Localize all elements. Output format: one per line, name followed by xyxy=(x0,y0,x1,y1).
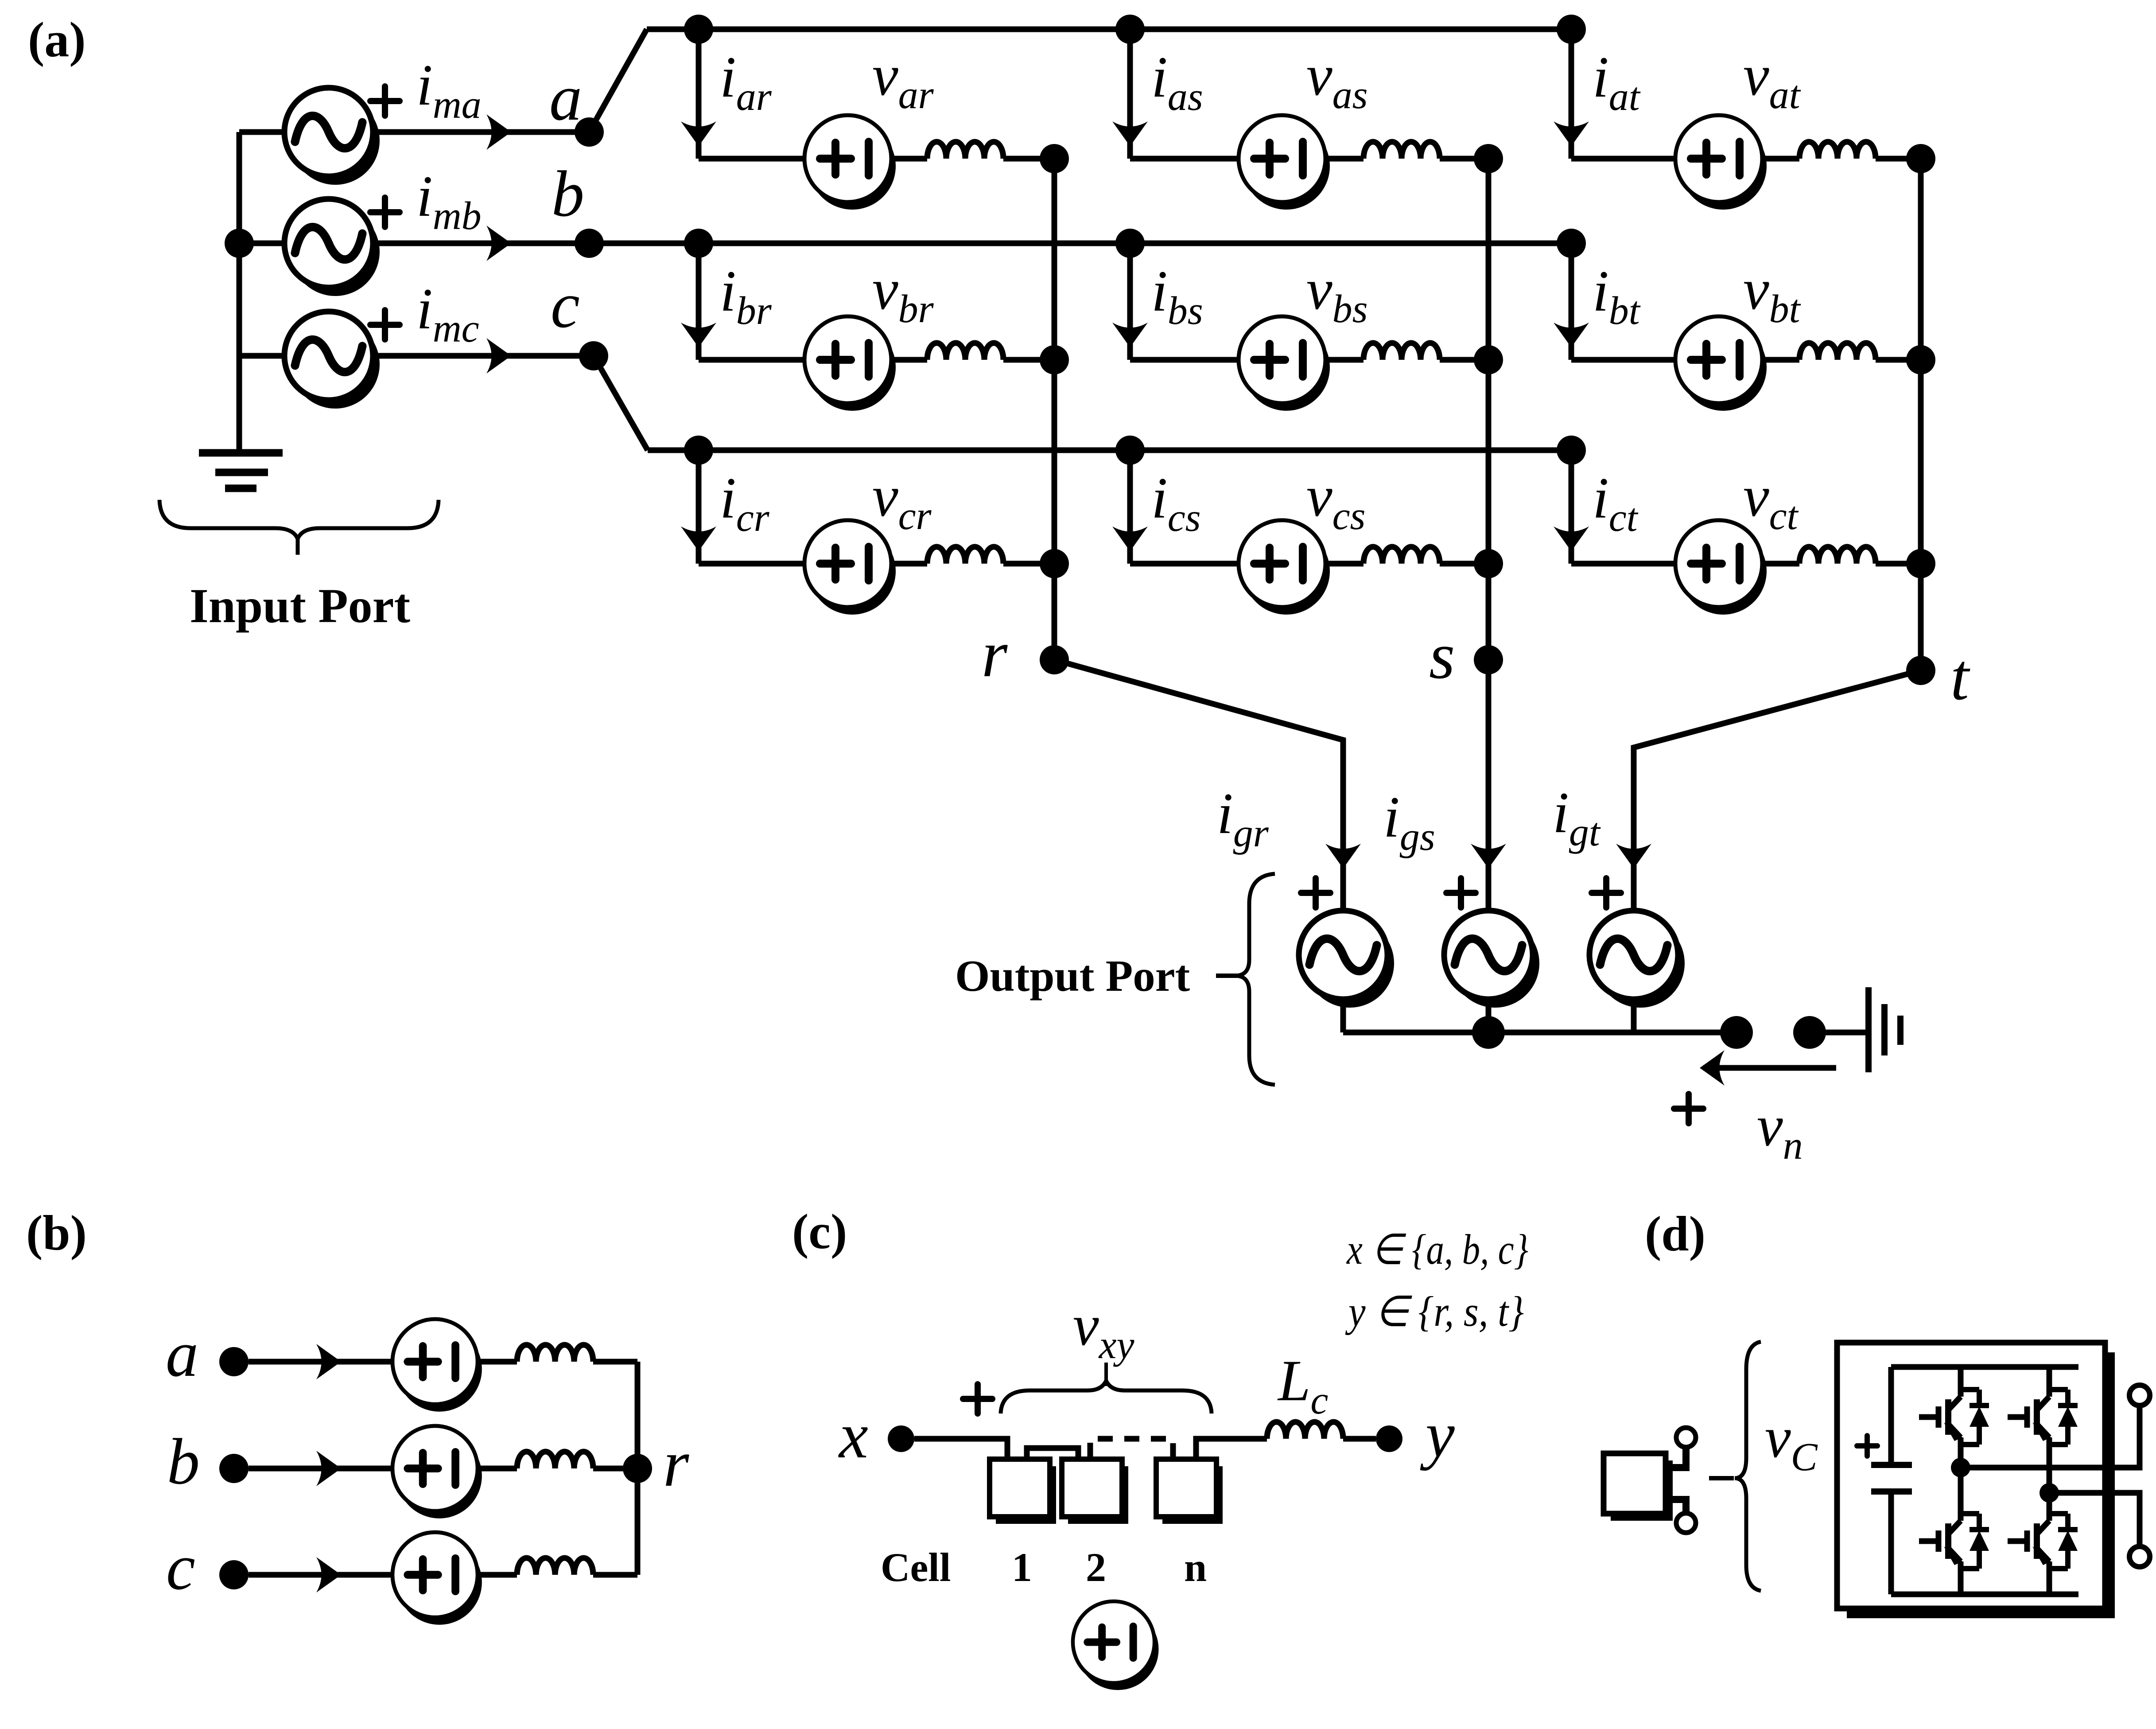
wire d-cell bottom terminal xyxy=(1666,1499,1686,1513)
svg-text:(d): (d) xyxy=(1645,1207,1705,1262)
inductor L_c xyxy=(1267,1422,1343,1439)
wire source to node a xyxy=(372,129,589,135)
node bus a drop t xyxy=(1557,15,1586,44)
ac source output gs xyxy=(1444,911,1539,1008)
node bus b drop r xyxy=(684,229,713,258)
wire inductor cs to bus s xyxy=(1440,561,1488,567)
wire cap bottom stub xyxy=(1888,1491,1894,1594)
wire branch at to source xyxy=(1571,156,1675,162)
wire b-section b to source xyxy=(249,1466,396,1472)
v_xy brace stem xyxy=(1104,1363,1108,1386)
wire inductor ct to bus t xyxy=(1876,561,1921,567)
wire drop i_ar xyxy=(696,29,702,159)
wire bus t vertical xyxy=(1918,159,1924,670)
wire node r to output xyxy=(1054,660,1343,912)
wire dashed cell 2 to cell n xyxy=(1090,1439,1173,1458)
plus polarity source a xyxy=(370,86,400,116)
wire source v_cr to inductor xyxy=(891,561,927,567)
node bus t row b xyxy=(1906,345,1935,374)
svg-text:Output Port: Output Port xyxy=(955,951,1190,1001)
wire left input bus vertical xyxy=(237,132,242,453)
inductor branch ct xyxy=(1799,547,1876,564)
igbt Q2 xyxy=(2008,1387,2078,1447)
wire branch br to source xyxy=(699,357,804,363)
wire cell 1 to cell 2 xyxy=(1027,1448,1078,1459)
wire branch cs to source xyxy=(1130,561,1239,567)
wire diagonal node c to c bus xyxy=(594,356,648,450)
svg-text:c: c xyxy=(551,269,580,342)
inductor b-section b xyxy=(517,1452,593,1468)
arrow current i_ct xyxy=(1554,526,1589,551)
node bus s row b xyxy=(1474,345,1503,374)
wire right leg upper xyxy=(2047,1367,2052,1389)
inductor b-section c xyxy=(517,1558,593,1575)
wire branch ar to source xyxy=(699,156,804,162)
wire diagonal node a to top bus xyxy=(589,29,647,132)
node t xyxy=(1906,656,1935,685)
svg-text:r: r xyxy=(663,1427,689,1500)
voltage source b-section a xyxy=(392,1319,482,1412)
wire inductor bs to bus s xyxy=(1440,357,1488,363)
node b-section a xyxy=(219,1347,249,1376)
node c xyxy=(579,341,608,370)
node bus a drop r xyxy=(684,15,713,44)
wire inductor at to bus t xyxy=(1876,156,1921,162)
overbrace v_xy xyxy=(1001,1381,1212,1414)
wire source v_ct to inductor xyxy=(1762,561,1799,567)
wire source to node b xyxy=(372,241,589,246)
voltage source cell legend xyxy=(1073,1601,1159,1690)
node bus b drop s xyxy=(1115,229,1145,258)
voltage source v_bt xyxy=(1675,316,1767,411)
inductor branch br xyxy=(927,343,1003,360)
wire left bus to source a xyxy=(239,129,286,135)
wire x to cell 1 xyxy=(914,1439,1007,1459)
ac source i_ma xyxy=(284,88,380,185)
wire drop i_bt xyxy=(1569,243,1574,360)
wire left bus to source c xyxy=(239,353,286,359)
node bus t row c xyxy=(1906,549,1935,578)
arrow current i_cs xyxy=(1112,526,1148,551)
wire cell n to inductor xyxy=(1196,1439,1267,1459)
svg-text:x ∈ {a, b, c}: x ∈ {a, b, c} xyxy=(1346,1226,1528,1273)
wire inductor as to bus s xyxy=(1440,156,1488,162)
voltage source v_br xyxy=(804,316,896,411)
arrow b-section c xyxy=(316,1557,341,1593)
wire left bus to source b xyxy=(239,241,286,246)
wire node s to output xyxy=(1486,660,1492,912)
wire inductor L_c to y xyxy=(1343,1436,1376,1442)
wire source v_bs to inductor xyxy=(1325,357,1364,363)
svg-text:(c): (c) xyxy=(792,1204,847,1259)
wire b-section source c to inductor xyxy=(478,1572,517,1578)
node bus c drop t xyxy=(1557,436,1586,465)
wire bridge bottom rail xyxy=(1891,1592,2078,1597)
svg-text:1: 1 xyxy=(1012,1545,1032,1590)
node bus r row c xyxy=(1040,549,1069,578)
inductor branch cs xyxy=(1364,547,1440,564)
wire b-section source a to inductor xyxy=(478,1359,517,1365)
node bus s row a xyxy=(1474,144,1503,173)
wire drop i_at xyxy=(1569,29,1574,159)
node neutral ground terminal xyxy=(1793,1016,1826,1049)
svg-text:a: a xyxy=(166,1318,198,1390)
inductor branch cr xyxy=(927,547,1003,564)
arrow current i_gt xyxy=(1616,844,1651,868)
svg-text:a: a xyxy=(549,62,582,134)
wire left leg lower xyxy=(1958,1569,1964,1594)
arrow current i_as xyxy=(1112,121,1148,146)
arrow b-section a xyxy=(316,1344,341,1379)
ac source output gr xyxy=(1299,911,1394,1008)
cell 2 square xyxy=(1062,1459,1128,1524)
wire d-cell top terminal xyxy=(1666,1447,1686,1468)
wire drop i_br xyxy=(696,243,702,360)
wire left leg upper xyxy=(1958,1367,1964,1389)
wire neutral terminal to ground xyxy=(1810,1030,1866,1036)
node a xyxy=(575,117,604,147)
wire bus phase b xyxy=(589,241,1571,246)
wire right leg lower xyxy=(2047,1569,2052,1594)
plus polarity output gt xyxy=(1592,878,1621,907)
terminal circle d-cell top xyxy=(1676,1428,1696,1447)
voltage source v_cr xyxy=(804,520,896,615)
node bridge left mid xyxy=(1951,1458,1970,1477)
wire source v_cs to inductor xyxy=(1325,561,1364,567)
wire cap top stub xyxy=(1888,1367,1894,1465)
arrow current i_gr xyxy=(1325,844,1361,868)
ac source i_mc xyxy=(284,312,380,409)
wire inductor cr to bus r xyxy=(1003,561,1054,567)
wire drop i_ct xyxy=(1569,450,1574,564)
wire branch cr to source xyxy=(699,561,804,567)
wire branch bt to source xyxy=(1571,357,1675,363)
node bus t row a xyxy=(1906,144,1935,173)
wire bridge output top xyxy=(1961,1406,2140,1468)
wire output gs to neutral bus xyxy=(1486,998,1492,1032)
wire b-section inductor b to bus xyxy=(593,1466,637,1472)
wire bus phase c xyxy=(648,448,1571,453)
input port brace xyxy=(159,500,439,539)
output port label dash xyxy=(1216,974,1240,978)
wire drop i_as xyxy=(1127,29,1133,159)
terminal circle d-cell bottom xyxy=(1676,1513,1696,1533)
wire b-section inductor a to bus xyxy=(593,1359,637,1365)
voltage source v_bs xyxy=(1239,316,1330,411)
arrow current i_cr xyxy=(681,526,716,551)
cell square d-section xyxy=(1604,1453,1673,1521)
d-section dash xyxy=(1709,1476,1734,1480)
wire drop i_bs xyxy=(1127,243,1133,360)
terminal circle bridge top xyxy=(2129,1385,2150,1406)
arrow v_n xyxy=(1700,1050,1725,1086)
wire source v_as to inductor xyxy=(1325,156,1364,162)
wire b-section bus r xyxy=(635,1362,641,1575)
node x xyxy=(888,1425,914,1452)
node bus c drop s xyxy=(1115,436,1145,465)
capacitor plates xyxy=(1871,1465,1912,1491)
inductor branch as xyxy=(1364,142,1440,159)
node b-section c xyxy=(219,1560,249,1589)
arrow current i_bs xyxy=(1112,323,1148,347)
wire bus s vertical xyxy=(1486,159,1492,912)
voltage source b-section b xyxy=(392,1426,482,1519)
node r xyxy=(1040,645,1069,674)
svg-text:b: b xyxy=(167,1425,200,1498)
igbt Q3 xyxy=(1919,1511,1989,1571)
plus polarity v_C cap xyxy=(1857,1436,1877,1456)
wire inductor bt to bus t xyxy=(1876,357,1921,363)
wire output neutral bus xyxy=(1343,1030,1736,1036)
voltage source v_at xyxy=(1675,115,1767,210)
svg-text:t: t xyxy=(1950,640,1970,714)
arrow current i_mb xyxy=(486,226,511,261)
arrow current i_ar xyxy=(681,121,716,146)
voltage source b-section c xyxy=(392,1532,482,1625)
wire source v_br to inductor xyxy=(891,357,927,363)
node bus c drop r xyxy=(684,436,713,465)
igbt Q1 xyxy=(1919,1387,1989,1447)
wire source to node c xyxy=(372,353,594,359)
arrow b-section b xyxy=(316,1451,341,1486)
wire output gt to neutral bus xyxy=(1631,998,1637,1032)
svg-text:2: 2 xyxy=(1086,1545,1106,1590)
wire drop i_cr xyxy=(696,450,702,564)
svg-text:r: r xyxy=(982,617,1008,691)
svg-text:c: c xyxy=(166,1531,195,1604)
svg-text:y ∈ {r, s, t}: y ∈ {r, s, t} xyxy=(1345,1288,1524,1335)
arrow current i_at xyxy=(1554,121,1589,146)
node bus r row b xyxy=(1040,345,1069,374)
voltage source v_as xyxy=(1239,115,1330,210)
node neutral bus end xyxy=(1720,1016,1753,1049)
inductor branch at xyxy=(1799,142,1876,159)
wire inductor br to bus r xyxy=(1003,357,1054,363)
node b xyxy=(575,229,604,258)
wire source v_ar to inductor xyxy=(891,156,927,162)
wire b-section inductor c to bus xyxy=(593,1572,637,1578)
wire node t to output xyxy=(1634,670,1921,912)
svg-text:b: b xyxy=(552,158,584,230)
voltage source v_cs xyxy=(1239,520,1330,615)
ground input port xyxy=(199,453,283,488)
input port brace stem xyxy=(296,539,300,555)
plus polarity source c xyxy=(370,310,400,339)
node bus a drop s xyxy=(1115,15,1145,44)
node s xyxy=(1474,645,1503,674)
arrow current i_mc xyxy=(486,338,511,374)
arrow current i_br xyxy=(681,323,716,347)
ground output right xyxy=(1869,987,1900,1072)
wire inductor ar to bus r xyxy=(1003,156,1054,162)
wire bus r vertical xyxy=(1052,159,1057,660)
node bus r row a xyxy=(1040,144,1069,173)
plus polarity output gs xyxy=(1446,878,1476,907)
node neutral s junction xyxy=(1472,1016,1505,1049)
wire v_n arrow xyxy=(1703,1065,1836,1071)
wire left leg mid xyxy=(1958,1445,1964,1514)
svg-text:x: x xyxy=(838,1399,868,1472)
inductor branch ar xyxy=(927,142,1003,159)
arrow current i_bt xyxy=(1554,323,1589,347)
cell 1 square xyxy=(990,1459,1056,1524)
node b-section b xyxy=(219,1454,249,1483)
wire b-section c to source xyxy=(249,1572,396,1578)
svg-text:(b): (b) xyxy=(26,1206,87,1261)
wire top bus phase a xyxy=(647,27,1571,32)
wire b-section source b to inductor xyxy=(478,1466,517,1472)
plus polarity source b xyxy=(370,198,400,227)
node b-section r xyxy=(623,1454,652,1483)
wire drop i_cs xyxy=(1127,450,1133,564)
node bridge right mid xyxy=(2039,1483,2059,1503)
svg-text:Input Port: Input Port xyxy=(190,579,410,633)
wire bridge output bottom xyxy=(2049,1493,2140,1546)
inductor branch bs xyxy=(1364,343,1440,360)
inductor branch bt xyxy=(1799,343,1876,360)
node bus b drop t xyxy=(1557,229,1586,258)
arrow current i_gs xyxy=(1471,844,1506,868)
wire branch ct to source xyxy=(1571,561,1675,567)
svg-text:(a): (a) xyxy=(28,12,86,67)
output port brace xyxy=(1235,874,1275,1085)
arrow current i_ma xyxy=(486,114,511,150)
node y xyxy=(1376,1425,1402,1452)
node bus s row c xyxy=(1474,549,1503,578)
wire bridge top rail xyxy=(1891,1364,2078,1370)
node junction left bus phase b xyxy=(225,229,254,258)
ac source i_mb xyxy=(284,199,380,296)
wire source v_bt to inductor xyxy=(1762,357,1799,363)
plus polarity v_xy xyxy=(963,1384,992,1414)
wire output gr to neutral bus xyxy=(1340,998,1346,1032)
svg-text:s: s xyxy=(1429,619,1455,693)
wire branch bs to source xyxy=(1130,357,1239,363)
plus polarity output gr xyxy=(1301,878,1330,907)
svg-text:n: n xyxy=(1184,1545,1207,1590)
terminal circle bridge bottom xyxy=(2129,1546,2150,1567)
brace v_C xyxy=(1735,1342,1761,1591)
voltage source v_ar xyxy=(804,115,896,210)
cell n square xyxy=(1156,1459,1223,1524)
H-bridge box xyxy=(1837,1343,2115,1618)
inductor b-section a xyxy=(517,1345,593,1362)
voltage source v_ct xyxy=(1675,520,1767,615)
wire branch as to source xyxy=(1130,156,1239,162)
ac source output gt xyxy=(1589,911,1685,1008)
wire right leg mid xyxy=(2047,1445,2052,1514)
wire b-section a to source xyxy=(249,1359,396,1365)
wire source v_at to inductor xyxy=(1762,156,1799,162)
plus polarity v_n xyxy=(1674,1094,1703,1123)
igbt Q4 xyxy=(2008,1511,2078,1571)
svg-text:Cell: Cell xyxy=(881,1545,951,1590)
